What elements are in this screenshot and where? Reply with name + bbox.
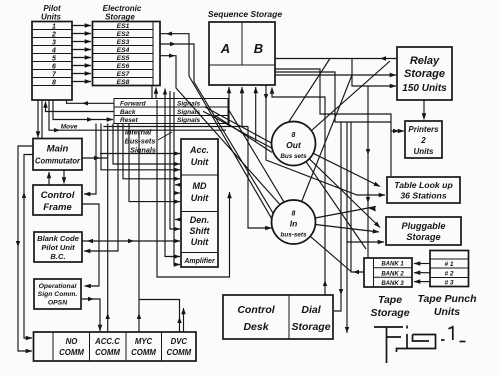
svg-text:COMM: COMM xyxy=(131,348,156,357)
wire opsn to no comm xyxy=(82,299,100,331)
svg-text:Storage: Storage xyxy=(370,307,409,319)
svg-text:Storage: Storage xyxy=(404,68,445,80)
svg-text:ES8: ES8 xyxy=(117,79,130,86)
wire move bus xyxy=(49,100,226,130)
svg-text:MYC: MYC xyxy=(135,337,153,346)
wire control frame to opsn xyxy=(82,204,99,286)
svg-text:NO: NO xyxy=(66,337,78,346)
wire seq staircase to printers xyxy=(275,69,391,176)
svg-text:Out: Out xyxy=(286,140,302,150)
svg-text:Pilot Unit: Pilot Unit xyxy=(41,243,75,252)
svg-text:Acc.: Acc. xyxy=(189,145,209,155)
wire out circle to seq-relay line diagonal xyxy=(281,59,331,135)
svg-text:Tape: Tape xyxy=(378,294,402,306)
wire into tape storage left xyxy=(351,122,364,272)
svg-text:Control: Control xyxy=(237,304,275,316)
svg-text:A: A xyxy=(220,41,230,56)
wire seq bottom stair to table look up xyxy=(266,86,385,196)
blank code pilot unit box xyxy=(34,232,82,262)
wire stub into md unit xyxy=(174,192,180,194)
wire forward rows to in circle diagonal xyxy=(228,109,284,203)
svg-text:Storage: Storage xyxy=(406,232,440,242)
svg-text:ES4: ES4 xyxy=(117,47,130,54)
wire bus into md unit b xyxy=(129,124,180,202)
svg-text:Storage: Storage xyxy=(105,13,135,22)
wire forward row to pilot xyxy=(67,100,115,103)
control desk / dial storage box xyxy=(223,295,333,339)
internal bus-sets label xyxy=(125,128,172,146)
printers box xyxy=(405,121,442,158)
svg-text:8: 8 xyxy=(292,132,296,139)
svg-text:Signals: Signals xyxy=(177,109,201,116)
svg-text:Tape Punch: Tape Punch xyxy=(417,293,476,305)
svg-text:5: 5 xyxy=(52,55,56,62)
wire out circle to tape xyxy=(306,162,366,249)
wire myc comm vertical with bracket xyxy=(138,130,140,332)
svg-text:B.C.: B.C. xyxy=(50,252,65,261)
svg-text:BANK 2: BANK 2 xyxy=(381,271,404,277)
wire ES row output b xyxy=(161,56,280,205)
electronic storage box xyxy=(93,4,161,86)
relay storage box xyxy=(397,47,452,100)
main commutator box xyxy=(33,139,82,171)
svg-text:B: B xyxy=(254,41,263,56)
svg-text:ES2: ES2 xyxy=(117,31,130,38)
svg-text:Bus sets: Bus sets xyxy=(280,153,307,160)
svg-text:Unit: Unit xyxy=(191,157,209,167)
wire bus to in circle xyxy=(248,127,272,229)
svg-text:Frame: Frame xyxy=(43,202,72,213)
svg-text:ES1: ES1 xyxy=(117,23,130,30)
wire bus into blank code xyxy=(84,124,118,252)
8 out bus-sets circle xyxy=(272,122,316,166)
wire bus into acc unit b xyxy=(101,124,180,170)
arithmetic units box xyxy=(181,139,218,267)
control frame box xyxy=(33,185,82,215)
svg-text:Forward: Forward xyxy=(120,101,147,108)
svg-text:BANK 1: BANK 1 xyxy=(381,262,404,268)
wire main commutator to control frame xyxy=(63,170,65,184)
svg-text:Amplifier: Amplifier xyxy=(183,258,216,265)
svg-text:8: 8 xyxy=(52,79,56,86)
forward back reset signals box xyxy=(114,99,228,125)
svg-text:DVC: DVC xyxy=(171,337,188,346)
svg-text:2: 2 xyxy=(51,31,56,38)
svg-text:6: 6 xyxy=(52,63,56,70)
svg-text:Move: Move xyxy=(61,124,78,131)
wire left loop inner xyxy=(24,155,33,339)
operational sign comm box xyxy=(34,279,81,309)
svg-text:COMM: COMM xyxy=(166,348,191,357)
wire vertical into amplifier b xyxy=(174,92,180,265)
svg-text:ES3: ES3 xyxy=(117,39,130,46)
wire dvc comm stub xyxy=(183,308,185,332)
svg-text:3: 3 xyxy=(52,39,56,46)
wire bus to sequence storage xyxy=(228,87,230,127)
wire internal bus upper xyxy=(104,126,249,128)
svg-text:Blank Code: Blank Code xyxy=(37,234,80,243)
wire out circle to pluggable xyxy=(309,159,380,228)
wire bus into control frame xyxy=(84,124,96,195)
wire signals into acc unit xyxy=(100,153,180,155)
svg-text:Units: Units xyxy=(434,306,460,318)
wire out circle to table look up xyxy=(313,153,380,186)
wire vertical into amplifier a xyxy=(165,89,180,257)
svg-text:4: 4 xyxy=(51,47,56,54)
wire seq bus to circles junction xyxy=(275,74,352,76)
wire md unit stub left xyxy=(175,184,181,186)
svg-text:Back: Back xyxy=(120,109,136,116)
svg-text:Internal: Internal xyxy=(125,128,152,137)
svg-text:Table Look up: Table Look up xyxy=(394,180,453,190)
wire to pluggable bottom xyxy=(347,122,384,242)
svg-text:Storage: Storage xyxy=(291,321,330,333)
svg-text:OPSN: OPSN xyxy=(48,300,68,307)
wire blank code to den shift unit xyxy=(82,240,180,242)
svg-text:150 Units: 150 Units xyxy=(402,83,447,94)
wire seq staircase middle xyxy=(275,72,391,122)
svg-text:Desk: Desk xyxy=(243,321,269,333)
wire main commutator to pilot up xyxy=(41,100,43,139)
wire signal line to seq bottom b xyxy=(255,87,257,142)
wire dial storage up to seq bottom xyxy=(272,88,325,296)
wire tape punch to bank 1 xyxy=(414,263,430,265)
wire table look up to in circle xyxy=(315,207,376,219)
sequence storage box xyxy=(208,9,282,85)
svg-text:Signals: Signals xyxy=(130,146,156,155)
svg-text:Bus-sets: Bus-sets xyxy=(125,137,156,146)
svg-text:bus-sets: bus-sets xyxy=(281,232,307,239)
svg-text:ES6: ES6 xyxy=(117,63,130,70)
wire relay to printers xyxy=(423,100,425,120)
wire in circle to tape wire xyxy=(310,236,351,271)
svg-text:8: 8 xyxy=(292,211,296,218)
svg-text:36 Stations: 36 Stations xyxy=(400,191,447,201)
svg-text:ES7: ES7 xyxy=(117,71,130,78)
svg-text:Sequence Storage: Sequence Storage xyxy=(208,9,282,19)
pilot units box xyxy=(32,4,72,100)
wire back row to pilot xyxy=(46,102,115,112)
svg-text:Signals: Signals xyxy=(177,117,201,124)
wire to dial storage right xyxy=(334,122,341,311)
wire tape punch to bank 2 xyxy=(414,272,430,274)
svg-text:Printers: Printers xyxy=(408,125,439,134)
wire tape punch to bank 3 xyxy=(414,281,430,283)
wire in circle to pluggable xyxy=(315,225,379,233)
wire bus into md unit a xyxy=(123,124,180,179)
svg-text:# 1: # 1 xyxy=(444,261,453,268)
table look up box xyxy=(387,177,460,203)
svg-text:COMM: COMM xyxy=(95,348,120,357)
svg-text:Den.: Den. xyxy=(190,215,210,225)
wire vertical into den shift xyxy=(170,91,180,229)
svg-text:Pluggable: Pluggable xyxy=(402,221,446,231)
svg-text:ES5: ES5 xyxy=(117,55,130,62)
svg-text:Unit: Unit xyxy=(191,237,209,247)
wire main commutator right stub xyxy=(82,157,108,159)
svg-text:COMM: COMM xyxy=(59,348,84,357)
wire seq to relay branch xyxy=(352,59,396,87)
svg-text:Units: Units xyxy=(414,147,435,156)
wire down to tape storage xyxy=(367,86,369,258)
svg-text:Main: Main xyxy=(47,144,69,155)
svg-text:ACC.C: ACC.C xyxy=(94,337,120,346)
wire den shift stub left xyxy=(175,219,181,221)
wire bus into acc unit a xyxy=(113,124,180,165)
svg-text:Relay: Relay xyxy=(410,55,440,67)
wire ES bottom short xyxy=(151,86,153,99)
wire ES row output a xyxy=(161,44,274,213)
tape punch units box xyxy=(417,251,476,319)
wire reset row from pilot xyxy=(53,100,113,120)
fig 1 label xyxy=(374,326,466,364)
svg-text:Operational: Operational xyxy=(39,283,77,290)
wire wrap under units box xyxy=(157,100,230,277)
svg-text:Commutator: Commutator xyxy=(35,157,81,166)
svg-text:# 3: # 3 xyxy=(444,280,453,287)
tape storage box xyxy=(364,258,412,319)
svg-text:BANK 3: BANK 3 xyxy=(381,281,404,287)
svg-text:Signals: Signals xyxy=(177,101,201,108)
svg-text:Dial: Dial xyxy=(301,304,321,316)
svg-text:Reset: Reset xyxy=(120,117,139,124)
wire signal line to seq bottom a xyxy=(241,87,243,127)
svg-text:Shift: Shift xyxy=(190,226,211,236)
wire pilot bottom to main commutator down xyxy=(37,100,39,138)
svg-text:Units: Units xyxy=(41,13,62,22)
comm units box xyxy=(34,332,197,361)
svg-text:2: 2 xyxy=(420,136,426,145)
svg-text:Unit: Unit xyxy=(191,193,209,203)
wire seq to relay storage xyxy=(273,58,397,60)
svg-text:1: 1 xyxy=(52,23,56,30)
pluggable storage box xyxy=(386,217,461,245)
wires pilot to ES rows xyxy=(72,25,91,27)
svg-text:Sign Comm.: Sign Comm. xyxy=(38,291,78,298)
wire forward box to ES bottom xyxy=(155,88,157,99)
svg-text:# 2: # 2 xyxy=(444,270,453,277)
wire ES row2 input xyxy=(161,34,273,220)
svg-text:In: In xyxy=(290,219,298,229)
wire control frame to main commutator xyxy=(48,172,50,185)
wire out circle to relay long diagonal xyxy=(312,61,391,131)
wire in circle to relay xyxy=(302,75,352,202)
svg-text:Control: Control xyxy=(41,190,75,201)
wire acc.c comm vertical xyxy=(107,124,109,333)
8 in bus-sets circle xyxy=(272,200,316,244)
wire left loop outer xyxy=(18,146,33,351)
svg-text:MD: MD xyxy=(193,181,207,191)
wire signals diagonals to out circle xyxy=(205,107,272,143)
